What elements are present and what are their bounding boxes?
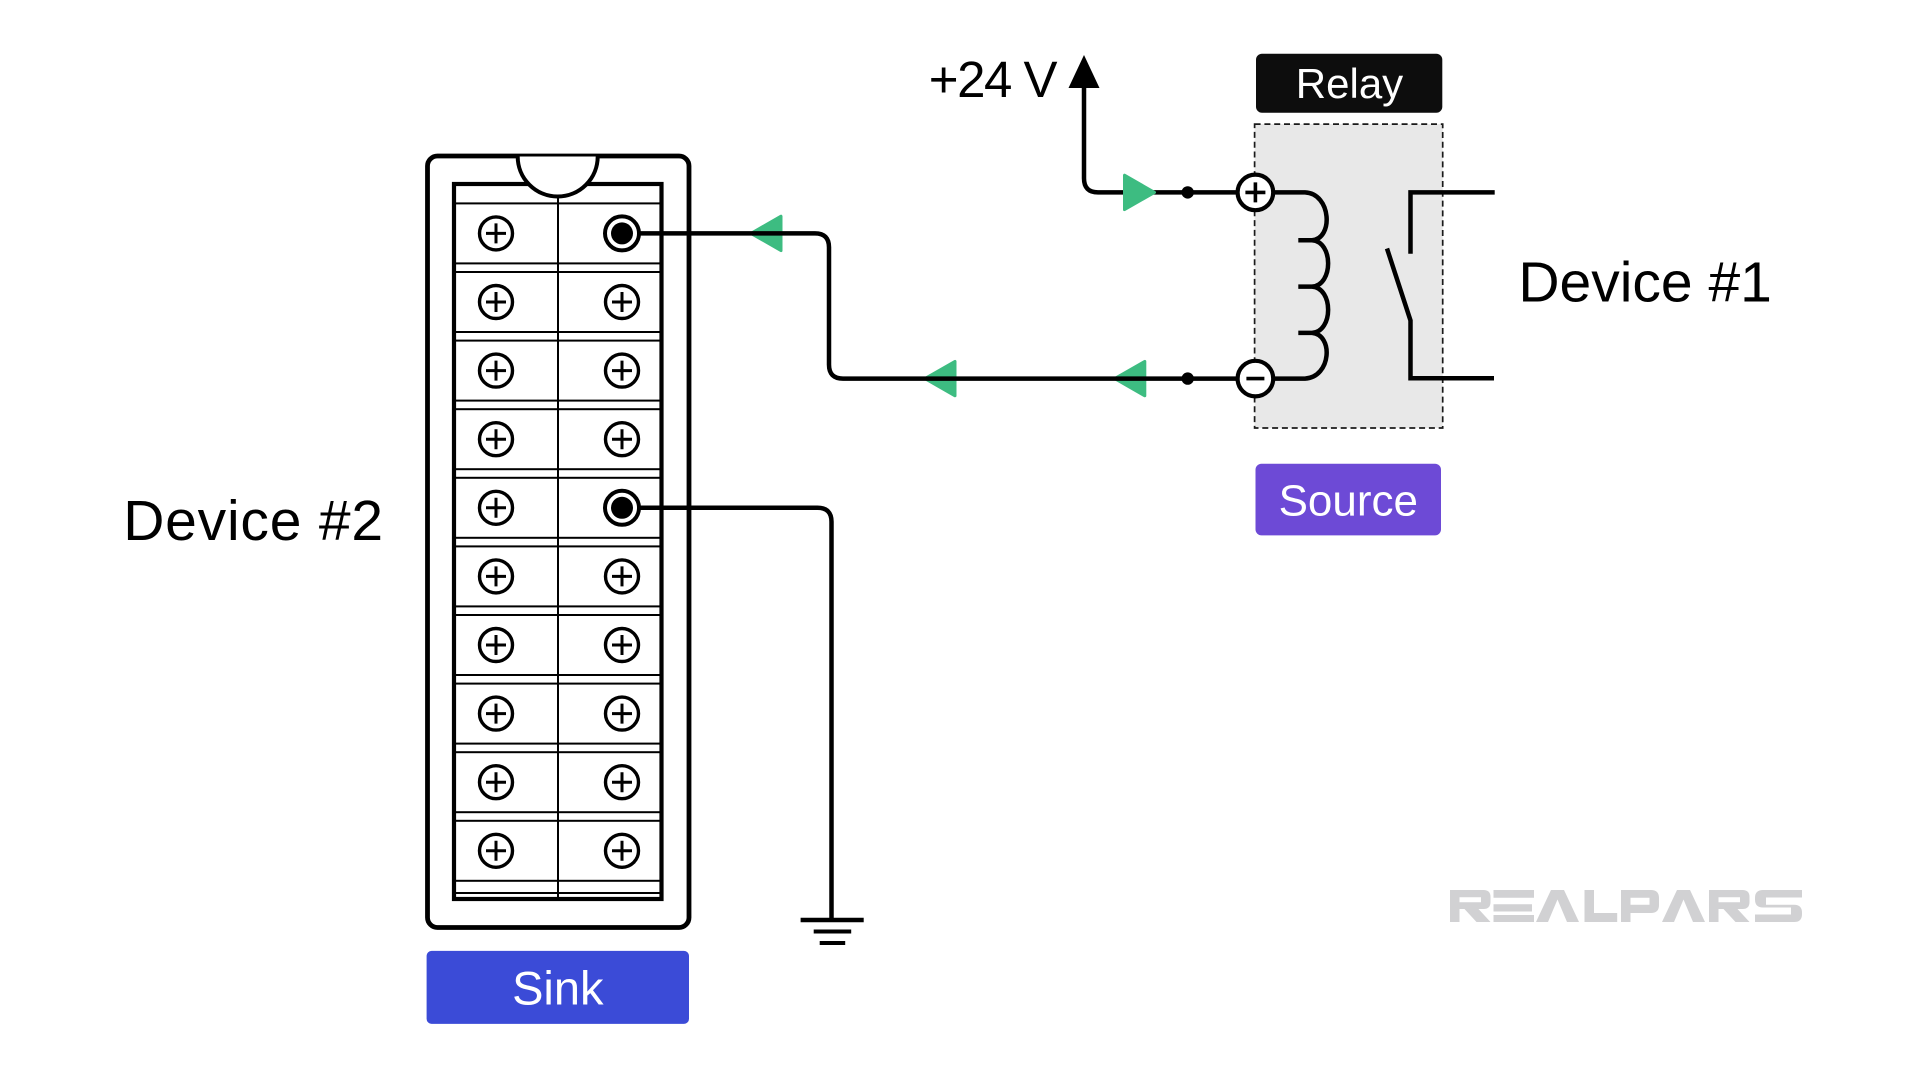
terminal block inner frame [454, 184, 662, 899]
relay coil [1273, 192, 1328, 378]
Source label [1256, 464, 1442, 536]
relay + terminal [1238, 175, 1274, 211]
green flow arrow (right) on +24V feed [1125, 175, 1155, 209]
ground [801, 920, 864, 943]
svg-text:Device #1: Device #1 [1518, 251, 1771, 315]
Sink label [427, 951, 689, 1024]
green flow arrow (left) on return wire bottom segment 1 [925, 361, 955, 395]
terminal block top notch [518, 157, 598, 197]
wire terminal block row5 to ground [622, 508, 832, 920]
green flow arrow (left) on return wire top segment [751, 216, 781, 250]
relay contact: fixed side + wire to Device #1 [1411, 192, 1495, 253]
wire from +24V rail to relay + terminal [1084, 85, 1237, 192]
REALPARS watermark logo [1450, 890, 1802, 922]
svg-text:+24 V: +24 V [929, 51, 1058, 108]
wire terminal block row1 to relay - terminal [622, 233, 1237, 378]
junction dot on + wire [1182, 186, 1194, 198]
svg-text:Source: Source [1279, 477, 1418, 526]
terminal block cells [454, 203, 662, 893]
screw terminals right column (plain) [606, 286, 639, 868]
+24 V supply arrow [1069, 55, 1100, 88]
green flow arrow (left) on return wire bottom segment 2 [1115, 361, 1145, 395]
wired terminal row1 right [605, 216, 639, 250]
wired terminal row5 right [605, 491, 639, 525]
svg-text:Relay: Relay [1296, 60, 1403, 107]
terminal block outer housing [428, 156, 690, 928]
relay - terminal [1238, 361, 1274, 397]
svg-text:Sink: Sink [512, 962, 604, 1015]
relay enclosure (dashed box) [1255, 124, 1443, 428]
junction dot on - wire [1182, 372, 1194, 384]
terminal block center divider [557, 196, 559, 897]
svg-text:Device #2: Device #2 [123, 489, 384, 553]
Relay label [1256, 54, 1442, 113]
screw terminals left column [480, 217, 513, 867]
relay contact: blade + wire to Device #1 [1387, 249, 1494, 379]
